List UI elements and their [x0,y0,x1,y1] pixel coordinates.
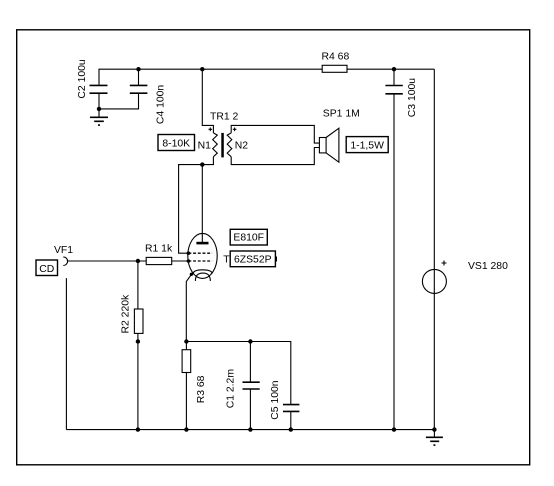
wire C1 top lead [249,342,251,383]
svg-text:C1 2.2m: C1 2.2m [226,369,237,408]
resistor R3 [182,350,207,404]
svg-text:VF1: VF1 [54,245,73,256]
resistor R4 [322,52,350,73]
voltage source VS1 [422,261,508,294]
connector VF1 [36,245,73,275]
wire R2 bottom to rail [137,333,139,429]
capacitor C4 [130,85,167,125]
node R2 bottom [136,339,140,343]
node C1 top [248,339,252,343]
wire N2 top to speaker [231,125,319,143]
node rail C5 [289,427,293,431]
capacitor C1 [226,369,260,408]
node rail R3 [184,427,188,431]
wire N1 bottom to node [202,157,213,165]
wire C4 top lead [138,69,140,85]
node input R2 [136,259,140,263]
tube TV1 E810F [187,233,237,281]
wire VS1 branch vertical [433,69,435,429]
capacitor C5 [270,380,300,420]
svg-text:R2 220k: R2 220k [121,294,132,334]
node cathode R3 [184,339,188,343]
capacitor C3 top lead [393,69,395,85]
node top rail C3 [392,67,396,71]
label E810F [230,229,267,245]
wire R4 to right corner [347,68,434,70]
wire node to R2 top [137,261,139,309]
resistor R1 [145,243,173,264]
wire cathode rail to C5 [186,342,290,405]
svg-text:C3 100u: C3 100u [407,78,418,118]
svg-text:6ZS52P: 6ZS52P [234,255,272,266]
svg-text:VS1 280: VS1 280 [468,261,508,272]
wire C2 bottom lead [98,93,100,109]
svg-text:SP1 1M: SP1 1M [323,108,360,119]
wire input VF1 to R1 [67,260,146,262]
node top rail transformer [200,67,204,71]
wire C5 bottom lead [290,411,292,429]
wire R1 to control grid [172,260,189,262]
svg-text:C2 100u: C2 100u [77,59,88,99]
svg-text:CD: CD [39,264,54,275]
node top rail C4 [136,67,140,71]
node transformer anode [200,162,204,166]
svg-text:N1: N1 [198,140,212,151]
capacitor C3 [385,78,418,118]
label 6ZS52P [230,251,277,267]
ground bottom right [426,430,443,446]
svg-text:TR1 2: TR1 2 [210,112,239,123]
wire R3 bottom lead [185,373,187,430]
svg-text:E810F: E810F [233,232,264,243]
wire transformer primary top [202,69,213,133]
wire node to anode [201,165,203,243]
svg-text:R4 68: R4 68 [322,52,350,63]
node rail R2 [136,427,140,431]
svg-text:1-1,5W: 1-1,5W [350,140,384,151]
svg-text:R1 1k: R1 1k [145,243,173,254]
svg-text:C4 100n: C4 100n [155,85,166,125]
wire C3 bottom lead [393,94,395,430]
wire cathode lead [186,274,191,341]
wire bottom rail [66,429,434,431]
ground near C2 [90,109,108,126]
svg-text:N2: N2 [235,140,249,151]
wire C2 to C4 bottom [99,93,139,109]
capacitor C2 [77,59,108,99]
label 8-10K [158,135,195,151]
wire VF1 ground lead [65,278,67,430]
wire R3 top lead [185,342,187,350]
wire top rail from C2 to R4 [99,69,322,85]
wire C1 bottom lead [249,389,251,430]
node rail C1 [248,427,252,431]
resistor R2 [121,294,144,334]
label 1-1,5W [346,137,388,153]
wire N2 bottom to speaker [231,148,319,165]
transformer TR1 [198,112,249,158]
wire node to screen grid [179,165,203,254]
svg-text:8-10K: 8-10K [162,138,190,149]
speaker SP1 [319,108,359,162]
node rail C3 [392,427,396,431]
node rail ground [432,427,436,431]
node C2 ground [97,107,101,111]
svg-text:R3 68: R3 68 [196,375,207,403]
svg-text:C5 100n: C5 100n [270,380,281,420]
